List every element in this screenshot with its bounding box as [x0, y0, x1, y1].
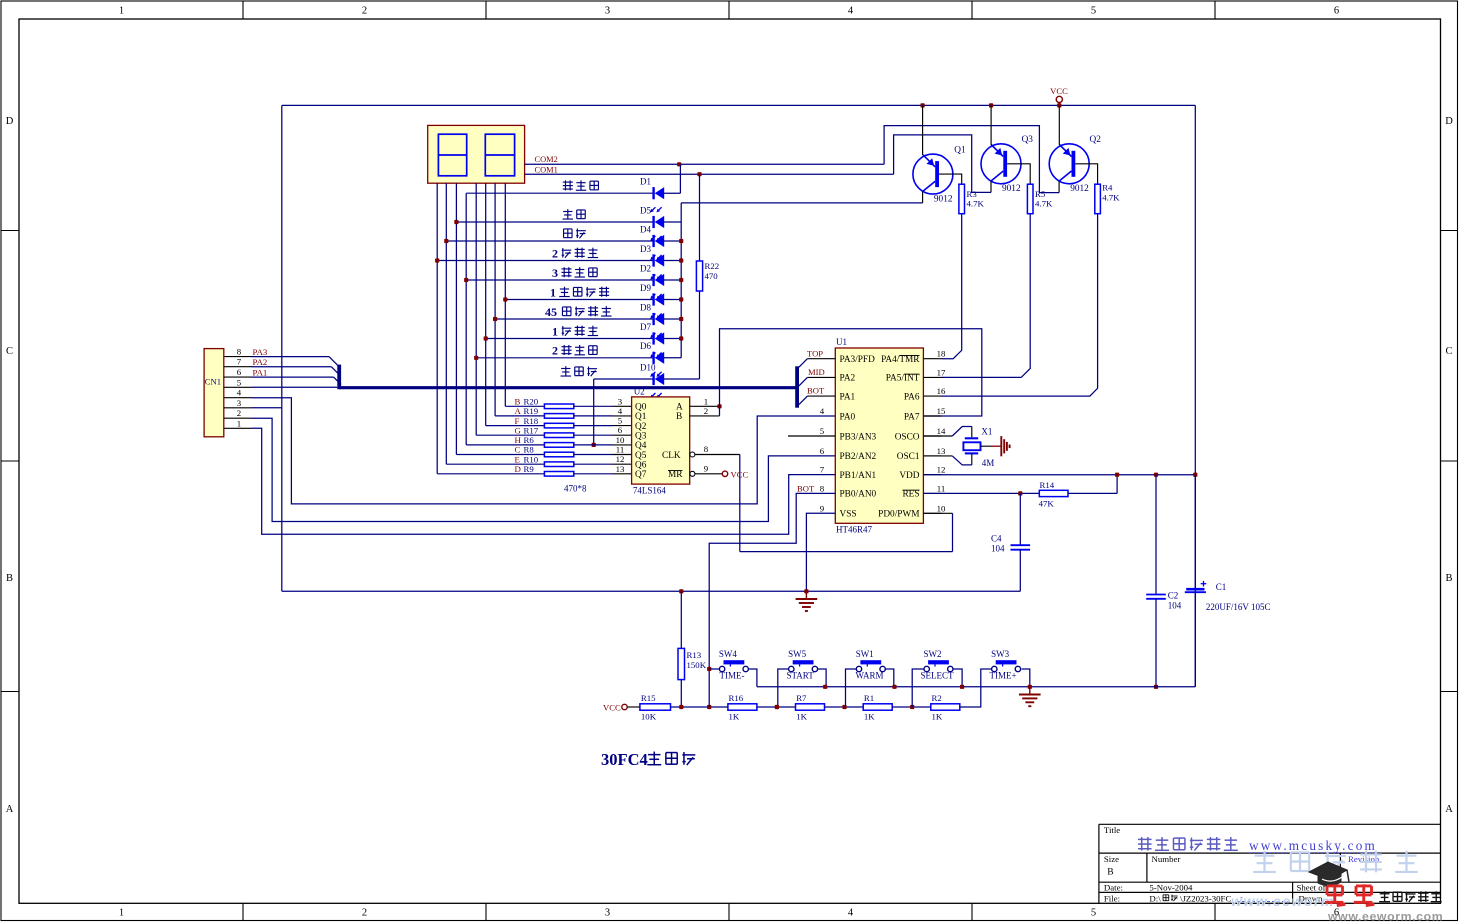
capacitor C1 220UF	[1194, 475, 1196, 588]
junction SW4 left	[707, 667, 711, 671]
svg-text:12: 12	[937, 465, 946, 475]
svg-text:START: START	[787, 671, 815, 681]
junction Q1 emitter	[921, 103, 925, 107]
svg-text:CLK: CLK	[662, 451, 681, 461]
arrows D7	[651, 353, 655, 357]
pin U2-1 (A)	[690, 405, 720, 407]
pin CN1-3	[224, 407, 252, 409]
resistor R19	[495, 415, 544, 417]
ground VSS	[805, 591, 807, 599]
junction D9 cathode	[503, 297, 507, 301]
wire COM1 to Q3 collector	[894, 135, 991, 193]
svg-text:5: 5	[1091, 6, 1096, 17]
svg-text:C2: C2	[1168, 591, 1179, 601]
svg-text:Q6: Q6	[635, 461, 647, 471]
svg-text:Q2: Q2	[635, 422, 647, 432]
arrows D9	[651, 314, 655, 318]
capacitor C2	[1155, 475, 1157, 595]
resistor R14	[1039, 490, 1068, 496]
resistor R2	[931, 704, 960, 710]
wire SW4 left	[709, 668, 719, 670]
svg-text:5: 5	[820, 426, 825, 436]
svg-text:G: G	[515, 425, 522, 435]
resistor R1	[863, 704, 892, 710]
svg-text:2: 2	[552, 344, 558, 358]
svg-text:D10: D10	[640, 362, 656, 372]
svg-text:C1: C1	[1216, 582, 1227, 592]
svg-text:1K: 1K	[932, 712, 943, 722]
svg-text:R6: R6	[524, 435, 535, 445]
wire ladder	[671, 706, 728, 708]
junction D3 anode	[679, 258, 683, 262]
pin CN1-5	[224, 386, 252, 388]
resistor R3	[959, 184, 965, 214]
resistor R15	[640, 704, 671, 710]
resistor R6	[466, 444, 544, 446]
svg-text:Date:: Date:	[1104, 883, 1123, 893]
junction D1-COM2	[677, 162, 681, 166]
wire Q1 collector to LED column	[681, 202, 922, 204]
svg-text:A: A	[676, 403, 683, 413]
svg-text:R20: R20	[524, 397, 539, 407]
svg-text:TIME+: TIME+	[990, 671, 1017, 681]
ground at X1	[981, 445, 992, 447]
svg-text:4.7K: 4.7K	[1102, 192, 1120, 202]
svg-text:TIME-: TIME-	[720, 671, 745, 681]
svg-text:2: 2	[362, 6, 367, 17]
wire CN1-4 to PA0	[252, 398, 836, 504]
svg-text:5-Nov-2004: 5-Nov-2004	[1149, 883, 1193, 893]
wire ladder	[825, 706, 864, 708]
svg-text:www.mcusky.com: www.mcusky.com	[1249, 838, 1377, 853]
svg-text:5: 5	[237, 377, 242, 387]
wire RES net	[923, 492, 1039, 494]
wire SW2 left	[912, 669, 924, 707]
svg-text:1: 1	[550, 285, 556, 299]
svg-text:X1: X1	[981, 427, 992, 437]
svg-text:R22: R22	[705, 261, 720, 271]
svg-text:6: 6	[820, 446, 825, 456]
LED D6	[476, 357, 653, 359]
pin CN1-8	[224, 356, 252, 358]
wire Q3 collector	[990, 181, 992, 192]
transistor Q1	[913, 154, 953, 194]
switch SW5	[793, 660, 814, 664]
pin PB3 stub	[788, 435, 835, 437]
svg-text:D2: D2	[640, 263, 651, 273]
junction D7 cathode	[484, 336, 488, 340]
wire D9 anode	[664, 299, 681, 301]
svg-text:8: 8	[237, 347, 242, 357]
svg-text:1K: 1K	[729, 712, 740, 722]
svg-text:PA2: PA2	[840, 374, 856, 384]
svg-text:R13: R13	[687, 650, 702, 660]
switch SW2	[928, 660, 949, 664]
junction SW2-common	[960, 685, 964, 689]
svg-text:4.7K: 4.7K	[967, 199, 985, 209]
wire LED anode column (Q1 collector net)	[680, 203, 682, 358]
wire Q1 emitter	[922, 105, 924, 155]
svg-text:4: 4	[820, 406, 825, 416]
svg-text:CN1: CN1	[205, 377, 221, 387]
svg-text:PA6: PA6	[904, 392, 920, 402]
svg-text:PB0/AN0: PB0/AN0	[840, 490, 877, 500]
switch SW1	[860, 660, 881, 664]
arrows D1	[651, 207, 655, 211]
resistor R16	[728, 704, 757, 710]
wire Q1 collector	[922, 192, 924, 203]
junction R13-GND	[679, 589, 683, 593]
wire PA4 to R3	[942, 214, 962, 359]
IC U2 74LS164	[632, 397, 690, 484]
svg-text:F: F	[515, 416, 520, 426]
company title (Chinese)	[1138, 838, 1152, 840]
svg-text:6: 6	[237, 367, 242, 377]
resistor R22	[699, 174, 701, 261]
svg-text:U1: U1	[836, 337, 847, 347]
junction D4 anode	[679, 239, 683, 243]
resistor R5	[1027, 184, 1033, 214]
pin CN1-1	[224, 427, 252, 429]
svg-text:D: D	[6, 116, 14, 127]
pin CN1-2	[224, 417, 252, 419]
junction C2-VDD	[1154, 473, 1158, 477]
wire segment column x=437.2	[436, 183, 438, 474]
row label texts (Chinese)	[563, 181, 573, 183]
svg-text:Q0: Q0	[635, 403, 647, 413]
svg-text:Q1: Q1	[635, 412, 647, 422]
svg-text:150K: 150K	[687, 660, 707, 670]
svg-text:PA3/PFD: PA3/PFD	[840, 355, 876, 365]
svg-text:Title: Title	[1104, 825, 1120, 835]
svg-text:1: 1	[704, 396, 708, 406]
svg-text:B: B	[515, 397, 521, 407]
wire D7 anode	[664, 338, 681, 340]
svg-text:D7: D7	[640, 322, 651, 332]
pin U2-8 (CLK)	[690, 452, 695, 457]
pin CN1-6	[224, 376, 252, 378]
svg-text:R3: R3	[967, 189, 978, 199]
svg-text:Q5: Q5	[635, 451, 647, 461]
wire segment column x=446.3	[445, 183, 447, 464]
svg-text:File:: File:	[1104, 893, 1120, 903]
ground at keys	[1029, 687, 1031, 695]
svg-text:104: 104	[991, 544, 1005, 554]
svg-text:D5: D5	[640, 205, 651, 215]
power VCC top	[1056, 96, 1062, 102]
resistor R13	[680, 591, 682, 648]
svg-text:2: 2	[362, 908, 367, 919]
svg-text:8: 8	[820, 483, 825, 493]
resistor R20	[505, 405, 544, 407]
wire Q2 collector	[1058, 181, 1060, 192]
capacitor C4	[1019, 493, 1021, 545]
junction D6 cathode	[474, 356, 478, 360]
wire CN1-3 to GND	[252, 407, 282, 409]
svg-text:R8: R8	[524, 445, 535, 455]
wire PD0 drop	[952, 513, 954, 551]
resistor R18	[486, 425, 545, 427]
title block frame	[1099, 823, 1441, 825]
wire COM1	[525, 173, 894, 175]
wire CLK drop	[739, 455, 741, 552]
svg-text:3: 3	[605, 6, 610, 17]
junction D4 cathode	[444, 239, 448, 243]
transistor Q2	[1049, 144, 1089, 184]
arrows D2	[651, 294, 655, 298]
junction R13 bottom	[679, 705, 683, 709]
svg-text:WARM: WARM	[856, 671, 884, 681]
svg-text:R10: R10	[524, 454, 539, 464]
LED D10	[594, 378, 653, 380]
svg-text:D8: D8	[640, 302, 651, 312]
wire Q3 base to R5	[1007, 164, 1030, 184]
svg-text:R1: R1	[864, 693, 874, 703]
svg-text:TOP: TOP	[807, 348, 823, 358]
digit 2	[485, 134, 514, 176]
svg-text:Number: Number	[1152, 854, 1181, 864]
resistor R4	[1095, 184, 1101, 214]
junction Q3 emitter	[989, 103, 993, 107]
svg-text:7: 7	[820, 465, 825, 475]
junction ladder tap	[707, 705, 711, 709]
pin CN1-4	[224, 397, 252, 399]
svg-text:B: B	[676, 412, 682, 422]
wire SW2 right	[953, 669, 962, 687]
wire CN1-2 to PB2	[252, 418, 836, 521]
LED D5	[456, 221, 653, 223]
svg-text:SELECT: SELECT	[921, 671, 955, 681]
svg-text:VDD: VDD	[899, 471, 919, 481]
svg-text:4M: 4M	[982, 458, 995, 468]
svg-text:VCC: VCC	[1050, 86, 1068, 96]
svg-text:6: 6	[618, 425, 623, 435]
wire key common net	[757, 686, 1195, 688]
svg-text:\JZ2023-30FC: \JZ2023-30FC	[1180, 893, 1231, 903]
svg-text:www.eeworm: www.eeworm	[1231, 893, 1335, 909]
svg-text:R15: R15	[641, 693, 656, 703]
svg-text:R16: R16	[729, 693, 744, 703]
svg-text:Q3: Q3	[635, 432, 647, 442]
switch SW3	[996, 660, 1017, 664]
svg-text:BOT: BOT	[807, 386, 825, 396]
svg-text:1K: 1K	[864, 712, 875, 722]
svg-text:H: H	[515, 435, 522, 445]
svg-text:SW2: SW2	[924, 649, 942, 659]
svg-text:9012: 9012	[934, 194, 953, 204]
crystal X1	[923, 435, 952, 437]
wire left rail	[281, 105, 283, 591]
junction D9 anode	[679, 297, 683, 301]
wire segment column x=495.1	[494, 183, 496, 416]
svg-text:D6: D6	[640, 341, 651, 351]
junction R14-VDD	[1115, 473, 1119, 477]
wire R14 right	[1068, 492, 1117, 494]
resistor R7	[796, 704, 825, 710]
svg-text:470: 470	[705, 271, 719, 281]
svg-text:D:\: D:\	[1149, 893, 1161, 903]
junction SW1-common	[892, 685, 896, 689]
svg-text:R2: R2	[932, 693, 942, 703]
svg-text:R9: R9	[524, 464, 535, 474]
svg-text:470*8: 470*8	[564, 484, 587, 494]
svg-text:15: 15	[937, 406, 946, 416]
svg-text:Q1: Q1	[954, 145, 966, 155]
svg-text:9012: 9012	[1070, 184, 1089, 194]
svg-text:VSS: VSS	[840, 510, 857, 520]
svg-text:D: D	[1445, 116, 1453, 127]
wire VCC top rail	[282, 104, 1196, 106]
svg-text:1K: 1K	[796, 712, 807, 722]
svg-text:VCC: VCC	[603, 703, 621, 713]
digit 1	[438, 134, 466, 176]
wire D5 anode	[664, 221, 681, 223]
watermark black site name	[1384, 891, 1386, 902]
arrows D3	[651, 275, 655, 279]
wire VSS to GND	[806, 513, 835, 591]
svg-text:VCC: VCC	[731, 469, 749, 479]
svg-text:45: 45	[545, 305, 557, 319]
svg-text:3: 3	[618, 396, 623, 406]
LED D4	[446, 240, 653, 242]
pin U2-2 (B)	[690, 415, 720, 417]
svg-text:13: 13	[616, 464, 625, 474]
svg-text:10: 10	[937, 503, 946, 513]
junction SW5 left	[775, 705, 779, 709]
svg-text:Q4: Q4	[635, 441, 647, 451]
svg-text:PB2/AN2: PB2/AN2	[840, 452, 877, 462]
svg-text:Size: Size	[1104, 854, 1119, 864]
wire PA1	[252, 376, 334, 378]
svg-text:PA5/INT: PA5/INT	[886, 374, 920, 384]
svg-text:1: 1	[237, 418, 241, 428]
wire SW3 right	[1022, 669, 1030, 687]
svg-text:B: B	[1445, 573, 1452, 584]
resistor R9	[437, 473, 544, 475]
arrows D6	[651, 372, 655, 376]
svg-text:D1: D1	[640, 177, 651, 187]
arrows D10	[651, 393, 655, 397]
svg-text:D4: D4	[640, 224, 651, 234]
svg-text:COM2: COM2	[535, 155, 558, 164]
junction D8 cathode	[493, 317, 497, 321]
svg-text:B: B	[6, 573, 13, 584]
svg-text:Q2: Q2	[1090, 135, 1102, 145]
svg-text:A: A	[1445, 804, 1453, 815]
wire CN1-1 to PB1	[252, 428, 836, 534]
LED D2	[466, 279, 653, 281]
watermark light blue glyphs	[1263, 851, 1265, 873]
svg-text:220UF/16V 105C: 220UF/16V 105C	[1206, 602, 1271, 612]
wire Q3 emitter	[990, 105, 992, 144]
svg-text:MR: MR	[668, 470, 683, 480]
svg-text:2: 2	[552, 246, 558, 260]
svg-text:4.7K: 4.7K	[1035, 199, 1053, 209]
svg-text:RES: RES	[902, 490, 919, 500]
transistor Q3	[981, 144, 1021, 184]
svg-text:R7: R7	[796, 693, 807, 703]
svg-text:11: 11	[937, 483, 945, 493]
wire COM2 to Q2 collector	[884, 126, 1059, 193]
wire ladder	[892, 706, 931, 708]
svg-text:10: 10	[616, 435, 625, 445]
svg-text:4: 4	[848, 908, 854, 919]
resistor R10	[446, 463, 544, 465]
svg-text:104: 104	[1168, 601, 1182, 611]
watermark red chongchong	[1327, 885, 1343, 888]
wire ladder	[757, 706, 796, 708]
wire SW1 left	[846, 669, 857, 707]
arrows D5	[651, 236, 655, 240]
LED D9	[505, 299, 653, 301]
svg-text:R5: R5	[1035, 189, 1046, 199]
svg-text:C: C	[6, 346, 13, 357]
junction A-B tie	[717, 404, 721, 408]
svg-text:1: 1	[119, 6, 124, 17]
svg-text:16: 16	[937, 386, 946, 396]
svg-text:C4: C4	[991, 534, 1002, 544]
svg-text:10K: 10K	[641, 712, 657, 722]
svg-text:14: 14	[937, 426, 946, 436]
connector CN1	[204, 349, 224, 437]
wire D2 anode	[664, 279, 681, 281]
svg-text:E: E	[515, 454, 520, 464]
junction D2 anode	[679, 278, 683, 282]
svg-text:PA1: PA1	[253, 367, 268, 377]
svg-text:PA0: PA0	[840, 412, 856, 422]
junction D10-Q4	[592, 443, 596, 447]
wire Q1 base to R3	[939, 174, 962, 184]
svg-text:PA2: PA2	[253, 357, 268, 367]
junction GND-common	[1028, 685, 1032, 689]
svg-text:PA3: PA3	[253, 347, 268, 357]
junction R22-COM1	[697, 172, 701, 176]
wire segment column x=505.3	[504, 183, 506, 406]
wire D6 anode	[664, 357, 681, 359]
svg-text:OSCO: OSCO	[895, 432, 920, 442]
svg-text:PA1: PA1	[840, 392, 856, 402]
svg-text:PA7: PA7	[904, 412, 920, 422]
bus diagonals to U1	[799, 359, 808, 368]
svg-text:Q3: Q3	[1022, 135, 1034, 145]
bus TOP/MID/BOT	[339, 386, 797, 389]
wire SW5 left	[778, 669, 789, 707]
bus bar right	[795, 366, 799, 407]
wire COM2	[525, 163, 885, 165]
svg-text:R4: R4	[1102, 182, 1113, 192]
watermark graduation cap	[1309, 862, 1347, 880]
junction SW1 left	[842, 705, 846, 709]
svg-text:C: C	[1445, 346, 1452, 357]
svg-text:R19: R19	[524, 406, 539, 416]
wire U2 A/B to PA7	[720, 329, 982, 416]
wire D10 cathode drop	[593, 379, 595, 445]
svg-text:PB3/AN3: PB3/AN3	[840, 432, 877, 442]
switch SW4	[724, 660, 745, 664]
wire D8 anode	[664, 318, 681, 320]
wire PA5 to R5	[942, 214, 1031, 378]
svg-text:3: 3	[605, 908, 610, 919]
svg-text:OSC1: OSC1	[897, 452, 920, 462]
LED D3	[437, 260, 653, 262]
svg-text:2: 2	[704, 406, 708, 416]
svg-text:PB1/AN1: PB1/AN1	[840, 471, 877, 481]
arrows D4	[651, 255, 655, 259]
svg-text:30FC4: 30FC4	[601, 750, 648, 769]
wire PA6 to R4	[942, 214, 1098, 396]
wire D4 anode	[664, 240, 681, 242]
svg-text:9: 9	[820, 503, 825, 513]
